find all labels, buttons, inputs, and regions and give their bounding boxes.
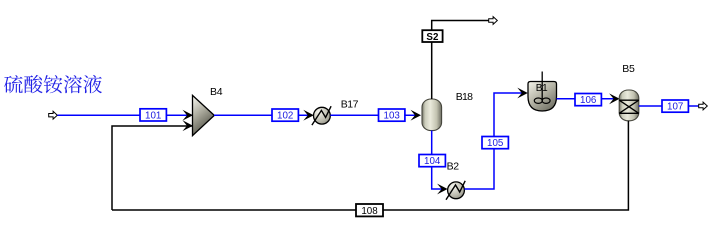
svg-text:B1: B1 [536, 83, 548, 94]
arrow into B4 (stream 108) [183, 120, 194, 131]
svg-text:105: 105 [487, 138, 504, 149]
arrow into B18 [411, 110, 422, 121]
wire recycle 108 into B4 [112, 126, 192, 210]
svg-text:103: 103 [384, 111, 401, 122]
wire vapor stream S2 [432, 21, 489, 100]
svg-text:107: 107 [667, 102, 683, 113]
svg-text:B5: B5 [622, 63, 635, 75]
label box stream 105 [482, 137, 508, 150]
wire stream 103 [330, 114, 416, 116]
svg-text:102: 102 [277, 111, 293, 122]
label box stream 101 [140, 109, 166, 122]
svg-text:108: 108 [361, 206, 378, 217]
wire recycle stream 108 [112, 121, 628, 210]
heater B2 [446, 181, 465, 200]
label box stream 108 [356, 204, 383, 217]
arrow into B2 [437, 184, 448, 195]
svg-text:B17: B17 [341, 99, 359, 111]
title text 硫酸铵溶液 (ammonium sulfate solution) [4, 75, 102, 93]
mixer B4 [193, 95, 215, 135]
product arrow stream 107 [699, 102, 708, 110]
svg-text:104: 104 [424, 156, 441, 167]
label box stream 107 [662, 100, 688, 113]
wire stream 107 [639, 105, 699, 107]
svg-text:S2: S2 [426, 32, 439, 43]
svg-text:B2: B2 [447, 161, 460, 173]
heater B17 [312, 106, 331, 125]
arrow into B5 [609, 93, 620, 104]
svg-text:B18: B18 [456, 91, 473, 103]
label box stream 104 [419, 155, 445, 168]
label box stream 103 [379, 109, 405, 122]
wire stream 104 [432, 131, 443, 190]
svg-text:106: 106 [580, 95, 597, 106]
svg-text:101: 101 [145, 110, 161, 121]
stirred tank B1 [528, 72, 557, 112]
feed source arrow [49, 111, 58, 119]
label box stream S2 [422, 30, 442, 43]
arrow into B17 [303, 110, 314, 121]
arrow into B4 (stream 101) [183, 110, 194, 121]
svg-text:B4: B4 [210, 86, 223, 98]
wire stream 101 [58, 114, 193, 116]
wire stream 105 [464, 93, 523, 189]
wire stream 106 [557, 98, 616, 100]
label box stream 106 [575, 94, 601, 107]
flash drum B18 [422, 99, 442, 131]
product arrow S2 [489, 17, 498, 25]
label box stream 102 [272, 109, 298, 122]
arrow into B1 [517, 88, 528, 99]
wire stream 102 [214, 114, 310, 116]
crystallizer B5 [619, 90, 639, 121]
